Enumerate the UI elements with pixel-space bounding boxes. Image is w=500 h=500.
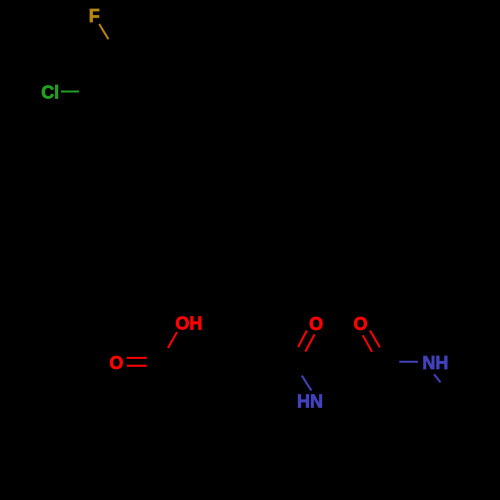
double bond C=O carboxyl line 1 — [127, 357, 147, 359]
svg-text:OH: OH — [175, 314, 202, 334]
svg-text:Cl: Cl — [41, 83, 59, 103]
bond N-C right amide (diagonal) — [434, 374, 441, 382]
double bond C=O right amide line 1 — [370, 331, 380, 348]
svg-text:F: F — [89, 6, 100, 26]
svg-text:HN: HN — [297, 392, 323, 412]
svg-text:O: O — [109, 353, 123, 373]
bond C-F — [99, 24, 108, 39]
bond C-OH — [168, 332, 177, 348]
double bond C=O right amide line 2 — [363, 335, 372, 352]
double bond C=O carboxyl line 2 — [127, 365, 147, 367]
svg-text:O: O — [309, 314, 323, 334]
double bond C=O left amide line 2 — [305, 334, 314, 351]
bond C-N right amide (horizontal) — [399, 361, 418, 363]
svg-text:O: O — [354, 314, 368, 334]
double bond C=O left amide line 1 — [298, 331, 307, 348]
bond C-Cl — [61, 91, 79, 93]
svg-text:NH: NH — [422, 353, 448, 373]
bond N-C left amide — [302, 376, 312, 391]
